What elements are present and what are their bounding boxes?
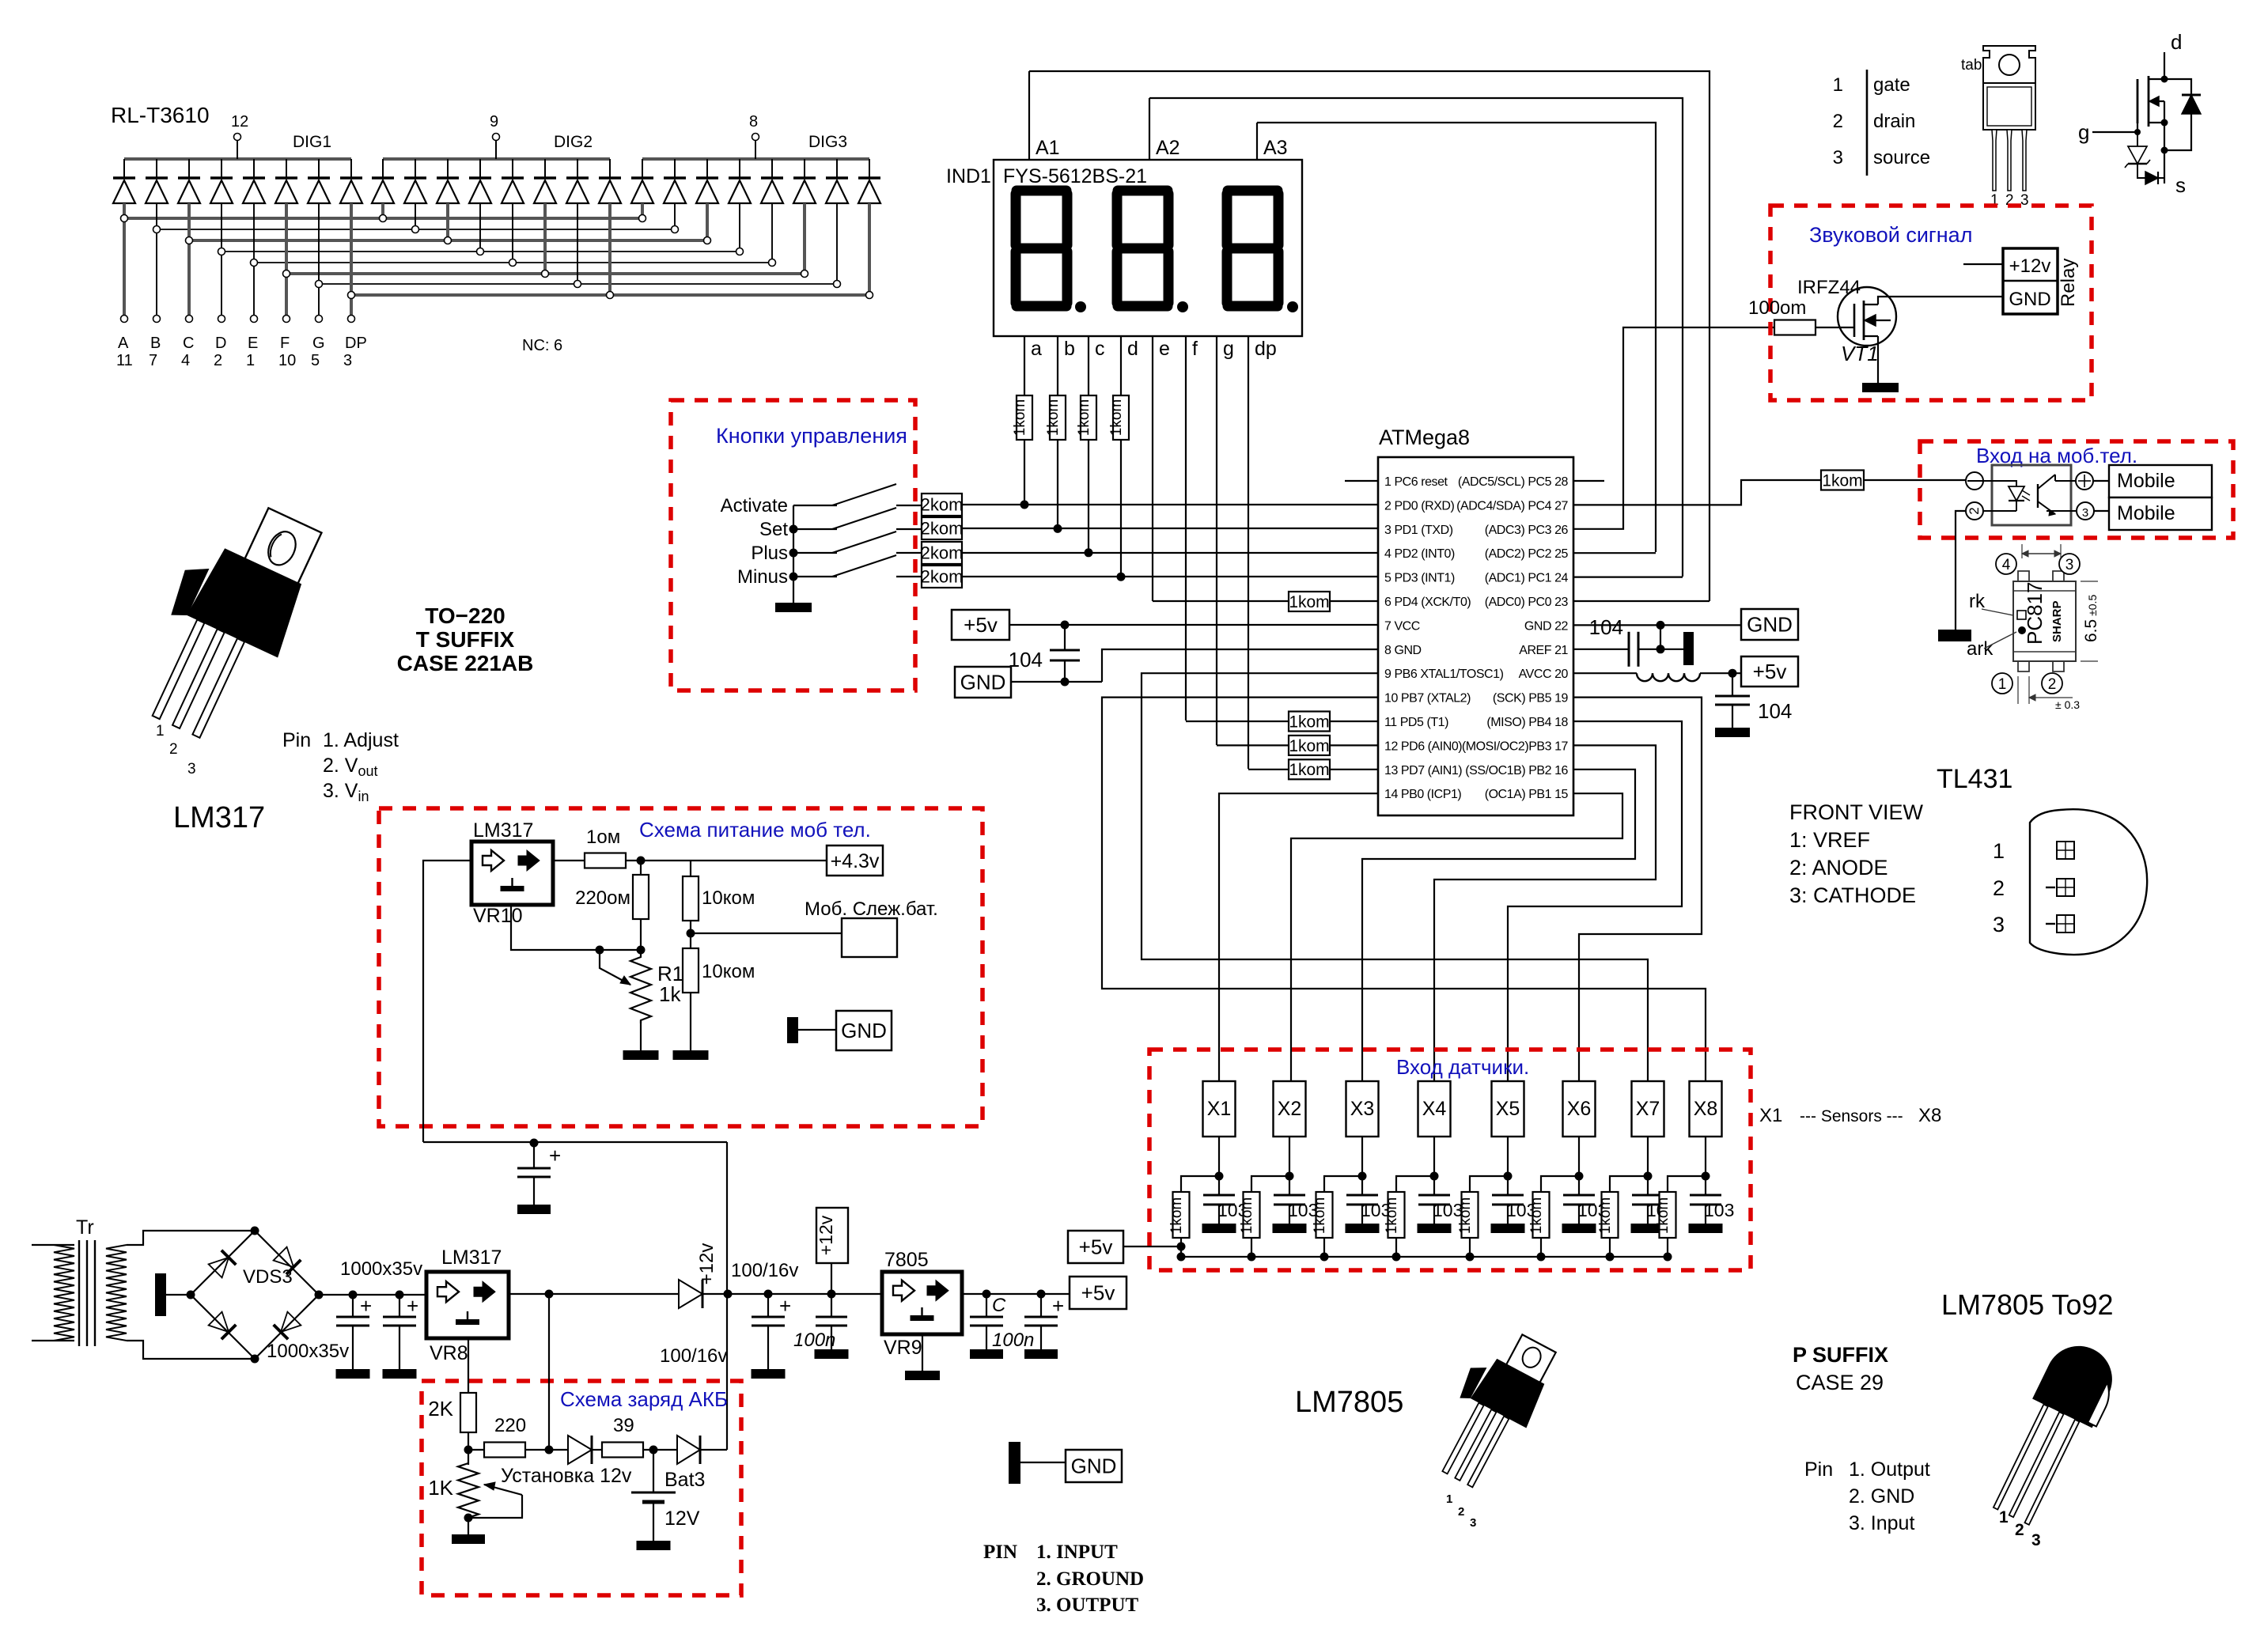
svg-text:(ADC0) PC0 23: (ADC0) PC0 23 — [1485, 596, 1569, 609]
svg-text:104: 104 — [1009, 648, 1043, 671]
svg-text:12V: 12V — [664, 1507, 700, 1530]
svg-text:2: 2 — [1993, 876, 2005, 900]
svg-text:1000x35v: 1000x35v — [267, 1341, 349, 1362]
svg-text:LM317: LM317 — [173, 801, 265, 834]
svg-text:2. GND: 2. GND — [1849, 1485, 1914, 1507]
svg-text:100n: 100n — [992, 1330, 1034, 1351]
svg-text:8: 8 — [749, 113, 758, 131]
svg-text:LM7805 To92: LM7805 To92 — [1941, 1288, 2114, 1321]
svg-text:(SS/OC1B) PB2 16: (SS/OC1B) PB2 16 — [1465, 764, 1568, 777]
svg-text:+: + — [779, 1294, 791, 1318]
svg-text:103: 103 — [1704, 1200, 1734, 1220]
svg-text:2kom: 2kom — [921, 543, 964, 563]
svg-text:VR10: VR10 — [473, 905, 523, 927]
svg-text:X8: X8 — [1694, 1098, 1718, 1120]
svg-text:12: 12 — [231, 113, 248, 131]
svg-text:3: 3 — [2065, 557, 2074, 573]
svg-text:1: 1 — [1998, 676, 2007, 693]
svg-text:dp: dp — [1255, 338, 1277, 360]
svg-text:+5v: +5v — [964, 613, 998, 637]
svg-text:DP: DP — [345, 335, 367, 352]
svg-text:1: 1 — [1833, 74, 1843, 96]
svg-text:TL431: TL431 — [1937, 764, 2012, 794]
svg-text:3: 3 — [2082, 506, 2088, 520]
svg-text:s: s — [2175, 173, 2186, 197]
svg-text:3. Input: 3. Input — [1849, 1512, 1914, 1534]
svg-text:3: 3 — [1833, 147, 1843, 168]
svg-text:1: VREF: 1: VREF — [1789, 828, 1870, 852]
svg-text:9 PB6 XTAL1/TOSC1): 9 PB6 XTAL1/TOSC1) — [1384, 668, 1504, 681]
svg-text:8 GND: 8 GND — [1384, 644, 1422, 657]
svg-text:100/16v: 100/16v — [731, 1260, 798, 1281]
svg-text:G: G — [312, 335, 325, 352]
svg-text:A1: A1 — [1036, 137, 1060, 159]
svg-text:+12v: +12v — [2009, 255, 2051, 277]
svg-text:1kom: 1kom — [1012, 399, 1028, 436]
svg-text:PIN: PIN — [983, 1542, 1017, 1563]
svg-text:Вход датчики.: Вход датчики. — [1396, 1055, 1529, 1079]
svg-text:10 PB7 (XTAL2): 10 PB7 (XTAL2) — [1384, 692, 1471, 706]
svg-text:SHARP: SHARP — [2050, 600, 2064, 642]
svg-text:1kom: 1kom — [1384, 1197, 1400, 1234]
svg-text:7 VCC: 7 VCC — [1384, 619, 1420, 633]
svg-text:--- Sensors ---: --- Sensors --- — [1800, 1107, 1903, 1125]
svg-text:1ом: 1ом — [586, 827, 620, 848]
svg-text:GND: GND — [960, 671, 1006, 694]
svg-text:+5v: +5v — [1081, 1281, 1115, 1305]
svg-text:source: source — [1873, 147, 1930, 168]
svg-text:C: C — [183, 335, 194, 352]
svg-text:1kom: 1kom — [1457, 1197, 1474, 1234]
svg-text:104: 104 — [1589, 615, 1623, 639]
svg-text:+4.3v: +4.3v — [831, 850, 880, 872]
svg-text:100n: 100n — [793, 1330, 835, 1351]
svg-text:1K: 1K — [428, 1476, 453, 1500]
svg-text:Bat3: Bat3 — [664, 1469, 705, 1491]
svg-text:(SCK) PB5 19: (SCK) PB5 19 — [1493, 692, 1569, 706]
svg-text:12 PD6 (AIN0): 12 PD6 (AIN0) — [1384, 740, 1462, 753]
svg-text:GND: GND — [841, 1019, 887, 1042]
svg-text:4: 4 — [2002, 557, 2011, 573]
svg-text:ATMega8: ATMega8 — [1379, 426, 1470, 449]
svg-text:1kom: 1kom — [1239, 1197, 1255, 1234]
svg-text:Activate: Activate — [721, 495, 788, 516]
svg-text:Pin: Pin — [1804, 1458, 1833, 1481]
svg-text:RL-T3610: RL-T3610 — [111, 103, 210, 127]
svg-text:1kom: 1kom — [1289, 713, 1329, 731]
svg-text:X7: X7 — [1636, 1098, 1660, 1120]
svg-text:11 PD5 (T1): 11 PD5 (T1) — [1384, 716, 1448, 729]
svg-text:X2: X2 — [1278, 1098, 1302, 1120]
svg-text:2: 2 — [2015, 1521, 2024, 1539]
svg-text:A: A — [118, 335, 129, 352]
svg-text:14 PB0 (ICP1): 14 PB0 (ICP1) — [1384, 788, 1461, 801]
svg-text:(ADC1) PC1 24: (ADC1) PC1 24 — [1485, 572, 1569, 585]
svg-text:E: E — [248, 335, 258, 352]
svg-text:gate: gate — [1873, 74, 1910, 96]
svg-text:2: 2 — [1967, 507, 1982, 514]
svg-text:GND: GND — [1071, 1455, 1117, 1478]
svg-text:TO−220: TO−220 — [425, 603, 505, 628]
svg-text:X6: X6 — [1567, 1098, 1592, 1120]
svg-text:3 PD1 (TXD): 3 PD1 (TXD) — [1384, 524, 1453, 537]
svg-text:Схема заряд АКБ: Схема заряд АКБ — [560, 1387, 728, 1411]
svg-text:GND 22: GND 22 — [1524, 619, 1569, 633]
svg-text:DIG2: DIG2 — [554, 133, 593, 151]
svg-text:3: CATHODE: 3: CATHODE — [1789, 883, 1916, 907]
svg-text:1k: 1k — [659, 982, 681, 1006]
svg-text:drain: drain — [1873, 111, 1915, 132]
svg-text:1kom: 1kom — [1289, 761, 1329, 779]
svg-text:DIG3: DIG3 — [808, 133, 847, 151]
svg-text:Mobile: Mobile — [2117, 502, 2175, 524]
svg-text:VT1: VT1 — [1841, 342, 1879, 365]
svg-text:7: 7 — [149, 352, 157, 369]
svg-text:X5: X5 — [1496, 1098, 1520, 1120]
svg-text:3: 3 — [2031, 1531, 2041, 1549]
svg-text:1000x35v: 1000x35v — [340, 1258, 422, 1280]
svg-text:DIG1: DIG1 — [293, 133, 331, 151]
svg-text:10: 10 — [278, 352, 296, 369]
svg-text:39: 39 — [613, 1415, 634, 1436]
svg-text:+12v: +12v — [696, 1243, 718, 1285]
svg-text:ark: ark — [1967, 638, 1993, 660]
svg-text:11: 11 — [116, 352, 133, 369]
svg-text:Set: Set — [759, 519, 788, 540]
svg-text:X4: X4 — [1422, 1098, 1447, 1120]
svg-text:GND: GND — [1747, 613, 1793, 637]
svg-text:g: g — [1223, 338, 1234, 360]
svg-text:Mobile: Mobile — [2117, 470, 2175, 492]
svg-text:(MISO) PB4 18: (MISO) PB4 18 — [1486, 716, 1568, 729]
svg-text:AVCC 20: AVCC 20 — [1519, 668, 1569, 681]
svg-text:+12v: +12v — [816, 1215, 836, 1255]
svg-text:3: 3 — [2020, 192, 2029, 209]
svg-text:1. INPUT: 1. INPUT — [1036, 1542, 1118, 1563]
svg-text:2. GROUND: 2. GROUND — [1036, 1568, 1144, 1590]
svg-text:220: 220 — [494, 1415, 526, 1436]
svg-text:1: 1 — [1446, 1492, 1452, 1506]
svg-text:2: 2 — [1458, 1505, 1464, 1519]
svg-text:± 0.3: ± 0.3 — [2055, 698, 2080, 711]
svg-text:1kom: 1kom — [1312, 1197, 1328, 1234]
svg-text:P SUFFIX: P SUFFIX — [1793, 1343, 1888, 1367]
svg-text:+: + — [1052, 1294, 1064, 1318]
svg-text:1kom: 1kom — [1289, 737, 1329, 755]
svg-text:3: 3 — [343, 352, 352, 369]
svg-text:GND: GND — [2009, 289, 2050, 310]
svg-text:+5v: +5v — [1753, 660, 1787, 683]
svg-text:1kom: 1kom — [1289, 593, 1329, 611]
svg-text:A3: A3 — [1263, 137, 1288, 159]
svg-text:d: d — [2171, 30, 2182, 54]
svg-text:LM317: LM317 — [473, 819, 533, 842]
svg-text:2 PD0 (RXD): 2 PD0 (RXD) — [1384, 499, 1455, 513]
svg-text:5 PD3 (INT1): 5 PD3 (INT1) — [1384, 572, 1455, 585]
svg-text:VDS3: VDS3 — [243, 1266, 293, 1288]
svg-text:6 PD4 (XCK/T0): 6 PD4 (XCK/T0) — [1384, 596, 1471, 609]
svg-text:220ом: 220ом — [575, 887, 630, 909]
svg-text:A2: A2 — [1156, 137, 1180, 159]
svg-text:2: 2 — [214, 352, 222, 369]
svg-text:e: e — [1159, 338, 1170, 360]
svg-text:LM317: LM317 — [441, 1246, 502, 1269]
svg-text:T SUFFIX: T SUFFIX — [416, 627, 515, 652]
svg-text:100om: 100om — [1748, 297, 1806, 319]
svg-text:g: g — [2078, 120, 2089, 144]
svg-text:AREF 21: AREF 21 — [1519, 644, 1568, 657]
svg-text:1: 1 — [1999, 1508, 2009, 1526]
svg-text:1kom: 1kom — [1528, 1197, 1545, 1234]
svg-text:C: C — [992, 1295, 1006, 1316]
svg-text:104: 104 — [1758, 699, 1792, 723]
svg-text:2: 2 — [2048, 676, 2057, 693]
svg-text:10ком: 10ком — [702, 961, 755, 982]
svg-text:7805: 7805 — [884, 1249, 929, 1271]
svg-text:+: + — [549, 1144, 561, 1167]
svg-text:IND1: IND1 — [946, 165, 991, 187]
svg-text:X8: X8 — [1918, 1105, 1941, 1126]
svg-text:D: D — [215, 335, 226, 352]
svg-text:tab: tab — [1961, 57, 1982, 74]
svg-text:1: 1 — [1993, 839, 2005, 863]
svg-text:Установка 12v: Установка 12v — [501, 1465, 632, 1487]
svg-text:(ADC4/SDA) PC4 27: (ADC4/SDA) PC4 27 — [1456, 499, 1568, 513]
svg-text:1kom: 1kom — [1597, 1197, 1614, 1234]
svg-text:IRFZ44: IRFZ44 — [1797, 277, 1861, 298]
svg-text:2: 2 — [169, 741, 178, 758]
svg-text:2kom: 2kom — [921, 495, 964, 515]
svg-text:3: 3 — [1993, 913, 2005, 936]
svg-text:10ком: 10ком — [702, 887, 755, 909]
svg-text:1kom: 1kom — [1045, 399, 1062, 436]
svg-text:(MOSI/OC2)PB3 17: (MOSI/OC2)PB3 17 — [1462, 740, 1569, 753]
svg-text:f: f — [1192, 338, 1198, 360]
svg-text:FRONT VIEW: FRONT VIEW — [1789, 800, 1924, 824]
svg-text:B: B — [150, 335, 161, 352]
svg-text:(ADC2) PC2 25: (ADC2) PC2 25 — [1485, 547, 1569, 561]
svg-text:1 PC6 reset: 1 PC6 reset — [1384, 475, 1448, 489]
svg-text:2kom: 2kom — [921, 519, 964, 539]
svg-text:b: b — [1064, 338, 1075, 360]
svg-text:Моб. Слеж.бат.: Моб. Слеж.бат. — [805, 898, 938, 920]
svg-text:VR9: VR9 — [884, 1337, 922, 1359]
svg-text:X1: X1 — [1207, 1098, 1232, 1120]
svg-text:VR8: VR8 — [430, 1342, 468, 1364]
svg-text:1kom: 1kom — [1822, 471, 1862, 490]
svg-text:2K: 2K — [428, 1397, 453, 1420]
svg-text:X3: X3 — [1350, 1098, 1375, 1120]
svg-text:1: 1 — [246, 352, 255, 369]
svg-text:9: 9 — [490, 113, 498, 131]
svg-text:+: + — [360, 1294, 372, 1318]
svg-text:100/16v: 100/16v — [660, 1345, 727, 1367]
svg-text:2: ANODE: 2: ANODE — [1789, 856, 1888, 880]
svg-text:(ADC5/SCL) PC5 28: (ADC5/SCL) PC5 28 — [1458, 475, 1569, 489]
svg-text:a: a — [1031, 338, 1042, 360]
svg-text:2kom: 2kom — [921, 567, 964, 587]
svg-text:CASE 29: CASE 29 — [1796, 1371, 1884, 1394]
svg-text:1: 1 — [156, 723, 165, 740]
svg-text:4 PD2 (INT0): 4 PD2 (INT0) — [1384, 547, 1455, 561]
svg-text:d: d — [1127, 338, 1138, 360]
svg-text:CASE 221AB: CASE 221AB — [397, 651, 534, 675]
svg-text:Кнопки управления: Кнопки управления — [716, 424, 907, 448]
svg-text:c: c — [1095, 338, 1105, 360]
svg-text:1. Output: 1. Output — [1849, 1458, 1930, 1481]
svg-text:+5v: +5v — [1079, 1235, 1113, 1259]
svg-text:NC: 6: NC: 6 — [522, 337, 562, 354]
svg-text:(ADC3) PC3 26: (ADC3) PC3 26 — [1485, 524, 1569, 537]
svg-text:1kom: 1kom — [1076, 399, 1092, 436]
svg-text:1. Adjust: 1. Adjust — [323, 729, 399, 751]
svg-text:FYS-5612BS-21: FYS-5612BS-21 — [1003, 165, 1147, 187]
svg-text:F: F — [280, 335, 290, 352]
svg-text:X1: X1 — [1759, 1105, 1782, 1126]
svg-text:Tr: Tr — [76, 1216, 94, 1239]
svg-text:(OC1A) PB1 15: (OC1A) PB1 15 — [1485, 788, 1569, 801]
svg-text:Звуковой сигнал: Звуковой сигнал — [1809, 223, 1972, 247]
svg-text:Схема питание моб тел.: Схема питание моб тел. — [639, 818, 871, 842]
svg-text:3: 3 — [187, 761, 196, 777]
svg-text:5: 5 — [311, 352, 320, 369]
svg-text:1kom: 1kom — [1108, 399, 1125, 436]
svg-text:Pin: Pin — [282, 729, 311, 751]
svg-text:LM7805: LM7805 — [1295, 1386, 1403, 1419]
svg-text:13 PD7 (AIN1): 13 PD7 (AIN1) — [1384, 764, 1462, 777]
svg-text:+: + — [407, 1294, 418, 1318]
svg-text:Minus: Minus — [737, 566, 788, 588]
svg-text:3. OUTPUT: 3. OUTPUT — [1036, 1594, 1139, 1616]
svg-text:3: 3 — [1470, 1516, 1476, 1530]
svg-text:1kom: 1kom — [1168, 1197, 1185, 1234]
svg-text:4: 4 — [181, 352, 190, 369]
svg-text:Plus: Plus — [751, 543, 788, 564]
svg-text:1kom: 1kom — [1655, 1197, 1672, 1234]
svg-text:2: 2 — [1833, 111, 1843, 132]
svg-text:Relay: Relay — [2058, 259, 2079, 307]
